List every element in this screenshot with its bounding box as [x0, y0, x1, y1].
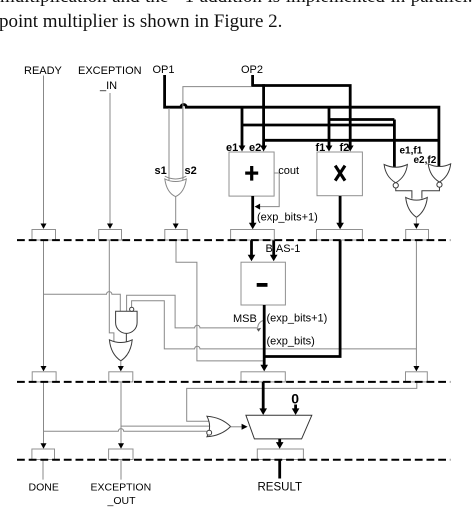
wire OR1 output [120, 361, 122, 367]
arrowhead 0 into MUX [292, 408, 300, 415]
arrowhead into R9 [260, 365, 268, 372]
register R6 [406, 230, 429, 241]
wire s1 tap [168, 108, 170, 180]
wire RESULT [278, 460, 281, 479]
wire s2 tap [183, 87, 252, 180]
register R3 [165, 230, 187, 241]
svg-text:_OUT: _OUT [107, 495, 137, 507]
arrowhead sub left [248, 255, 256, 262]
minus glyph [257, 283, 268, 287]
wire left NOR to OR [396, 188, 412, 199]
wire exception R6 to R11 [415, 240, 417, 367]
wire MUX output [278, 439, 281, 445]
wire R8 to R10b [120, 382, 122, 445]
svg-text:s2: s2 [185, 165, 197, 177]
OR2 gate select [207, 416, 231, 437]
svg-text:MSB: MSB [233, 313, 257, 325]
arrowhead f1 [326, 146, 333, 152]
register R10b [109, 449, 133, 460]
clipped paragraph line 1 [0, 0, 474, 8]
arrowhead into R2 [107, 224, 113, 229]
wire R7 tap to OR2 bubble [44, 429, 207, 432]
wire READY input [43, 76, 45, 225]
wire e2 branch [262, 84, 265, 146]
left NOR gate e1,f1 [384, 165, 407, 183]
arrowhead sub right [270, 255, 278, 262]
arrowhead into MUX [259, 408, 267, 415]
wire B exception tap to AND bubble [132, 301, 417, 349]
arrowhead into R5 [336, 223, 344, 230]
register R5 [317, 230, 363, 241]
svg-text:e2,f2: e2,f2 [414, 155, 437, 166]
wire cout feedback [259, 174, 280, 207]
register R7 [32, 372, 56, 382]
pipeline stage 1 dashed line [17, 239, 450, 241]
svg-text:0: 0 [291, 391, 299, 407]
svg-text:READY: READY [24, 65, 63, 77]
paragraph line 2 [0, 11, 282, 33]
register R12 [257, 449, 303, 460]
wire line E (e2,f2 to right NOR) [264, 139, 439, 142]
svg-text:(exp_bits+1): (exp_bits+1) [267, 313, 328, 325]
wire sign XOR output [175, 197, 177, 225]
sign XOR gate [165, 176, 187, 179]
register R1 [32, 230, 56, 241]
wire EXCEPTION_IN input [109, 93, 111, 225]
wire 0 to MUX [294, 405, 297, 411]
arrowhead MUX select [242, 424, 248, 430]
svg-text:cout: cout [278, 165, 299, 177]
wire R1 to R7 [43, 240, 45, 367]
register R2 [99, 230, 122, 241]
wire1 READY tap to AND [44, 292, 121, 312]
arrowhead into R10b [118, 443, 124, 448]
svg-text:DONE: DONE [29, 481, 59, 493]
arrowhead into R12 [276, 442, 284, 449]
wire OR2 output to MUX select [231, 426, 243, 428]
multiplier box U2 [317, 152, 362, 196]
arrowhead into R8 [118, 366, 124, 371]
wire right NOR to OR [422, 187, 440, 198]
wire line D (f1 to NOR) [329, 118, 394, 121]
wire R2 down to OR1 [109, 240, 114, 341]
register R10 [32, 449, 55, 460]
plus glyph [245, 172, 258, 175]
wire OR output [415, 217, 417, 225]
wire cout stub [274, 172, 279, 174]
arrowhead e1 [239, 146, 246, 152]
arrowhead into R4 [249, 223, 257, 230]
adder box U1 [229, 152, 274, 196]
arrowhead cout [255, 204, 261, 210]
pipeline stage 3 dashed line [17, 459, 450, 461]
arrowhead f2 [347, 146, 354, 152]
svg-text:RESULT: RESULT [258, 482, 303, 494]
MUX trapezoid [246, 415, 312, 439]
wire R5 mantissa L path [265, 240, 341, 356]
arrowhead into R10 [41, 443, 47, 448]
svg-text:(exp_bits+1): (exp_bits+1) [257, 212, 318, 224]
wire adder output [251, 196, 254, 224]
arrowhead into R7 [41, 366, 47, 371]
wire DONE [42, 460, 44, 480]
register R9 [241, 372, 285, 382]
wire R11 to OR2 top input [187, 382, 417, 421]
wire AND output [125, 333, 127, 343]
pipeline stage 2 dashed line [17, 381, 450, 383]
wire line B (e1 to NOR) [242, 124, 394, 127]
svg-text:EXCEPTION: EXCEPTION [78, 65, 142, 77]
AND gate U4 [116, 311, 138, 333]
OR gate exception combine [406, 197, 428, 217]
wire f1 branch [328, 106, 331, 147]
register R8 [109, 372, 133, 382]
wire OP1 bus (line A) with hop, to right NOR input [165, 75, 439, 167]
register R4 [231, 230, 275, 241]
svg-text:EXCEPTION: EXCEPTION [91, 481, 152, 493]
svg-text:_IN: _IN [99, 80, 117, 92]
wire OP2 bus (line C) to f2 [253, 75, 351, 147]
OR2 bubble [207, 430, 212, 435]
OR1 gate [109, 340, 132, 361]
subtractor box U3 [241, 262, 285, 305]
MSB tap arc [258, 321, 264, 328]
wire multiplier output [339, 196, 342, 224]
svg-text:s1: s1 [155, 165, 167, 177]
svg-text:BIAS-1: BIAS-1 [266, 243, 301, 255]
svg-text:(exp_bits): (exp_bits) [267, 336, 315, 348]
wire BIAS arrows from R4 [250, 240, 253, 255]
right NOR gate e2,f2 [428, 164, 451, 182]
arrowhead into R6 [413, 224, 419, 229]
wire R7 to R10 [43, 382, 45, 445]
wire R8 tap to OR2 [121, 425, 210, 427]
wire EXCEPTION_OUT [120, 460, 122, 480]
AND bubble input [130, 307, 134, 311]
wire e1 branch [241, 106, 244, 147]
svg-text:OP1: OP1 [153, 64, 175, 76]
arrowhead e2 [260, 146, 267, 152]
arrowhead into R1 [41, 224, 47, 229]
register R11 [406, 372, 428, 382]
wire A MSB to AND input [127, 295, 258, 328]
X glyph [335, 166, 345, 181]
wire left NOR input vertical [393, 120, 396, 168]
arrowhead into R11 [413, 366, 419, 371]
wire result R9 to MUX [262, 382, 265, 411]
wire sign path [176, 240, 263, 361]
arrowhead into R3 [173, 224, 179, 229]
wire subtractor output [263, 305, 266, 366]
svg-text:OP2: OP2 [241, 64, 263, 76]
